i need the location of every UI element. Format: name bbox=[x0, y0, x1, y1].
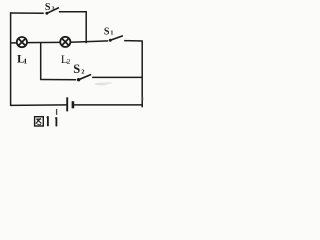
svg-text:S: S bbox=[45, 2, 51, 13]
caption hanzi TU (图) drawn as vector bbox=[35, 117, 44, 126]
label S3 bbox=[45, 2, 55, 13]
svg-text:S: S bbox=[104, 26, 110, 37]
lamp L1 bbox=[17, 37, 27, 47]
switch S1 pivot dot bbox=[109, 39, 112, 42]
wire top right segment from S3 to corner bbox=[59, 11, 87, 13]
wire from S1 to right border bbox=[124, 40, 143, 42]
svg-text:1: 1 bbox=[110, 30, 113, 37]
label L2 bbox=[61, 52, 71, 66]
switch S2 pivot dot bbox=[77, 78, 80, 81]
stray scan smudge below S2 branch bbox=[95, 82, 144, 100]
svg-text:2: 2 bbox=[67, 57, 71, 66]
switch S1 lever bbox=[110, 36, 123, 41]
svg-text:S: S bbox=[73, 62, 80, 76]
battery long plate (positive terminal) bbox=[66, 97, 68, 111]
wire bottom from left border to battery bbox=[10, 104, 66, 107]
wire S2 branch right segment to right border bbox=[92, 76, 143, 78]
wire bottom from battery to right border bbox=[74, 104, 143, 106]
svg-text:1: 1 bbox=[24, 57, 28, 65]
lamp L2 bbox=[60, 37, 70, 47]
label L1 bbox=[17, 51, 28, 65]
wire top left segment to switch S3 bbox=[10, 12, 44, 14]
label S2 bbox=[73, 62, 84, 76]
switch S3 lever bbox=[47, 8, 59, 14]
wire right border bbox=[141, 41, 143, 108]
stray print tick below bottom wire bbox=[56, 109, 58, 115]
wire vertical drop from top branch to node B bbox=[85, 12, 87, 43]
wire vertical from node A down to S2 branch bbox=[40, 43, 42, 80]
wire lamp row from left border to L1 bbox=[10, 42, 17, 44]
caption figure number 11 (two digit strokes) bbox=[47, 116, 57, 126]
wire left border (battery negative riser) bbox=[10, 12, 12, 106]
switch S3 pivot dot bbox=[45, 12, 48, 15]
wire between L1 and L2 (through node A) bbox=[27, 41, 61, 43]
label S1 bbox=[104, 26, 114, 37]
wire from L2 through node B to switch S1 bbox=[70, 41, 108, 42]
switch S2 lever bbox=[79, 75, 92, 80]
battery short plate (negative terminal) bbox=[72, 101, 75, 108]
svg-text:2: 2 bbox=[81, 68, 84, 75]
wire S2 branch left segment bbox=[40, 79, 76, 81]
svg-text:3: 3 bbox=[52, 6, 55, 12]
